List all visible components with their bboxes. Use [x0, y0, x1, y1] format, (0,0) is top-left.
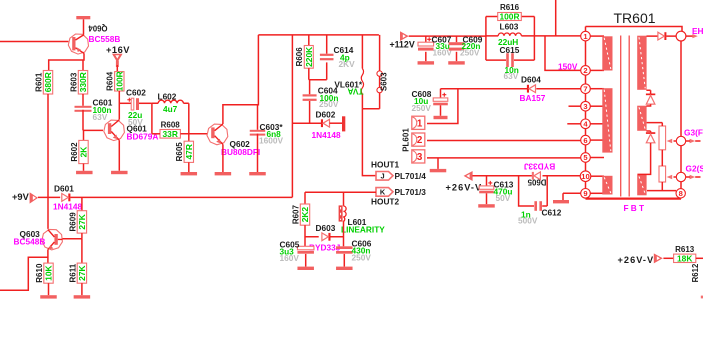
svg-text:3: 3 [583, 102, 587, 111]
svg-text:J: J [380, 172, 384, 181]
wire HOUT1 drop [362, 109, 376, 176]
svg-text:R610: R610 [35, 263, 44, 283]
wire node B to C604 [309, 80, 311, 95]
wire VL601 bottom [361, 94, 363, 109]
svg-text:R601: R601 [34, 72, 43, 92]
wire G3 link [674, 140, 677, 142]
wire L602-R608 right link [188, 103, 190, 134]
wire divider top [647, 123, 663, 126]
power arrow +26V-V left [464, 171, 473, 181]
winding secondary [637, 36, 646, 90]
wire Q604 collector [49, 53, 84, 70]
svg-text:PL701/4: PL701/4 [395, 171, 427, 181]
wire tap [590, 192, 604, 194]
wire R611 top [81, 239, 83, 263]
pin 4 [581, 119, 591, 129]
wire C609 top [456, 36, 458, 42]
wire R613 out [696, 257, 703, 259]
ground [553, 200, 569, 203]
svg-text:L603: L603 [500, 22, 519, 32]
svg-text:27K: 27K [77, 214, 87, 229]
wire to pin2 150V [545, 36, 581, 71]
wire top node rail [258, 34, 379, 36]
capacitor C608 [433, 93, 448, 106]
svg-text:TR601: TR601 [614, 10, 656, 26]
wire R607 top [304, 192, 306, 204]
svg-text:D601: D601 [54, 184, 74, 194]
svg-text:C612: C612 [542, 208, 562, 218]
diode D605 [532, 172, 541, 180]
connector PL601 pin 2 [412, 133, 425, 146]
wire top exit [555, 0, 557, 36]
wire tap [590, 123, 604, 125]
terminator bar C608 [434, 116, 448, 119]
wire C606 to ground [343, 254, 345, 267]
wire TR601 bottom edge [586, 198, 682, 200]
svg-text:18K: 18K [677, 253, 692, 263]
svg-text:6: 6 [583, 136, 587, 145]
power arrow +9V [30, 192, 38, 203]
wire winding to lower diode [637, 131, 650, 174]
svg-text:R604: R604 [106, 71, 115, 91]
wire G2 link [674, 176, 677, 178]
svg-text:10K: 10K [44, 265, 54, 280]
wire LRC right [533, 17, 535, 61]
wire C604 bottom [309, 101, 311, 123]
wire PL601-2 to pin6 [427, 140, 581, 142]
wire trunk [291, 35, 293, 197]
svg-text:HOUT1: HOUT1 [371, 160, 400, 170]
wire R606 top [308, 36, 310, 46]
capacitor C606 [336, 246, 353, 253]
wire node to R602 [83, 130, 85, 140]
wire C605 to ground [305, 254, 307, 267]
wire gnd tap PL601-3 [437, 158, 439, 169]
resistor R604 [106, 71, 125, 91]
wire LRC top [486, 16, 535, 18]
wire R605 to ground [188, 162, 190, 172]
capacitor C612 [534, 201, 542, 211]
wire arrow to R613 [663, 257, 673, 259]
wire R608 to Q602 base [180, 133, 207, 135]
svg-text:250V: 250V [412, 103, 432, 113]
arrow G2 right [690, 175, 696, 180]
svg-text:BC548B: BC548B [14, 237, 46, 247]
arrow G2 wiper [667, 175, 673, 180]
svg-text:63V: 63V [93, 112, 108, 122]
svg-text:1: 1 [417, 118, 423, 129]
wire node B [309, 79, 327, 81]
wire pin4 stub [567, 123, 580, 125]
wire C614 bottom [326, 62, 328, 79]
ground [478, 204, 495, 207]
wire C607 top [425, 36, 427, 42]
wire R609 bottom [81, 233, 83, 239]
arrow G3 right [690, 139, 696, 144]
wire LRC bottom [486, 59, 535, 61]
resistor [659, 126, 666, 150]
power arrow +16V [112, 54, 123, 67]
wire LRC left [485, 17, 487, 61]
svg-text:HOUT2: HOUT2 [371, 196, 400, 206]
wire +112V rail [409, 35, 486, 37]
wire C608 bottom [440, 105, 442, 116]
wire VL601 top [361, 35, 363, 69]
svg-text:D602: D602 [316, 110, 336, 120]
wire pin9 to ground [563, 193, 581, 200]
wire HOUT2 row [305, 191, 376, 193]
wire tap [590, 88, 604, 90]
wire R606 bottom [308, 68, 310, 80]
wire G3 out [686, 140, 701, 142]
svg-text:47R: 47R [184, 144, 194, 159]
wire Q602 emitter to ground [222, 144, 224, 172]
resistor R609 [68, 211, 87, 233]
svg-text:2KV: 2KV [339, 59, 356, 69]
svg-text:R602: R602 [70, 142, 79, 162]
wire LRC mid [486, 35, 581, 37]
svg-text:10: 10 [581, 172, 589, 181]
wire +16V to R604 [116, 65, 118, 72]
svg-text:R611: R611 [68, 263, 77, 282]
terminal G3 [676, 136, 685, 145]
wire L601 top [343, 192, 345, 206]
svg-text:D604: D604 [521, 75, 541, 85]
ground [40, 295, 57, 298]
wire D602 to bar [330, 122, 343, 124]
svg-text:C615: C615 [500, 45, 520, 55]
spark gap VL601 [361, 69, 363, 95]
wire divider bottom [647, 182, 676, 191]
resistor R602 [70, 140, 89, 163]
svg-text:63V: 63V [504, 71, 519, 81]
diode D604 [527, 85, 536, 93]
ground [297, 267, 314, 270]
svg-text:100R: 100R [499, 12, 519, 22]
svg-text:LINEARITY: LINEARITY [341, 225, 385, 235]
ground [74, 295, 91, 298]
wire to C603 [257, 105, 259, 130]
wire linearity node [305, 236, 344, 238]
wire R611 to ground [81, 283, 83, 295]
svg-text:7: 7 [583, 84, 587, 93]
wire PL601-1 to C608 node [427, 89, 458, 124]
svg-text:G2(S: G2(S [686, 163, 703, 173]
svg-text:S603: S603 [380, 72, 389, 91]
wire G2 out [686, 176, 701, 178]
capacitor C609 [449, 42, 465, 50]
connector PL601 pin 1 [412, 116, 425, 129]
svg-text:R609: R609 [68, 212, 77, 232]
wire C613 top [486, 176, 488, 186]
spark gap S603 top ball [377, 71, 382, 76]
winding primary [602, 88, 612, 152]
wire TR601 left edge [585, 27, 587, 199]
wire 26V row to pin10 [473, 175, 581, 177]
power arrow +112V [400, 31, 409, 41]
svg-text:1N4148: 1N4148 [312, 130, 341, 140]
svg-text:+112V: +112V [390, 40, 415, 50]
svg-text:R605: R605 [175, 142, 184, 162]
connector K PL701/3 [376, 188, 393, 197]
wire divider mid [661, 150, 663, 166]
svg-text:330R: 330R [78, 72, 88, 92]
capacitor C613 [479, 181, 494, 193]
svg-text:1N4148: 1N4148 [53, 201, 82, 211]
wire EHT out [686, 35, 693, 37]
wire tap [590, 105, 604, 107]
resistor R601 [34, 71, 53, 95]
svg-text:250V: 250V [319, 99, 339, 109]
svg-text:G3(F: G3(F [684, 127, 703, 137]
resistor R605 [175, 141, 194, 162]
diode FBT lower [646, 132, 655, 143]
wire Q601 emitter to ground [118, 140, 120, 171]
svg-text:160V: 160V [280, 253, 300, 263]
ground [181, 172, 198, 175]
resistor R616 [498, 3, 522, 22]
svg-text:3: 3 [417, 152, 423, 163]
resistor R606 [295, 46, 314, 69]
transistor Q603 [42, 229, 63, 250]
wire R601 bottom to Q603 collector [47, 94, 49, 229]
svg-text:+16V: +16V [106, 45, 130, 55]
wire Q603 emitter [47, 250, 49, 264]
winding secondary [637, 106, 646, 131]
wire R607 to C605 [304, 225, 306, 246]
svg-text:150V: 150V [558, 61, 578, 71]
svg-text:R607: R607 [291, 204, 300, 224]
arrow EHT [692, 34, 697, 38]
svg-text:250V: 250V [460, 48, 480, 58]
transistor Q602 [207, 124, 228, 145]
wire tap [590, 35, 604, 37]
ground [215, 172, 232, 175]
svg-text:BU808DFI: BU808DFI [221, 147, 260, 157]
svg-text:PL601: PL601 [402, 128, 411, 152]
resistor R613 [674, 245, 696, 264]
resistor [659, 166, 666, 182]
inductor L603 [498, 33, 521, 36]
wire node to L602 [152, 102, 189, 104]
wire Q602 collector up [223, 35, 259, 124]
svg-text:50V: 50V [496, 193, 511, 203]
svg-text:BA157: BA157 [520, 93, 546, 103]
connector PL601 pin 3 [412, 150, 425, 163]
svg-text:50V: 50V [128, 117, 143, 127]
pin 1 [581, 31, 591, 41]
wire base Q601 [83, 129, 103, 131]
wire node to C602 [119, 102, 131, 104]
wire pin3 stub [569, 105, 581, 107]
svg-text:+9V: +9V [12, 192, 30, 202]
wire C608 top [440, 89, 442, 98]
svg-text:100R: 100R [114, 71, 124, 91]
wire spark bottom link [362, 108, 379, 110]
svg-text:L602: L602 [158, 92, 177, 102]
pin 6 [581, 135, 591, 145]
transistor Q604 [68, 34, 88, 54]
svg-text:2K: 2K [79, 147, 89, 158]
connector J PL701/4 [376, 172, 393, 181]
svg-text:R612: R612 [691, 263, 700, 282]
inductor L602 [158, 100, 183, 103]
wire L601 to C606 [343, 221, 345, 246]
svg-text:C602: C602 [126, 88, 146, 98]
wire TR601 right rail [680, 41, 682, 199]
diode D603 [322, 233, 331, 241]
capacitor C602 [127, 98, 139, 110]
svg-text:R603: R603 [69, 72, 78, 92]
svg-text:680R: 680R [43, 72, 53, 92]
wire R603 to C601 [82, 94, 84, 106]
capacitor C614 [320, 54, 334, 61]
ground [418, 61, 435, 64]
resistor R603 [69, 71, 88, 95]
svg-text:8: 8 [679, 189, 683, 198]
svg-text:250V: 250V [352, 252, 372, 262]
pin 5 [581, 153, 591, 163]
svg-text:FBT: FBT [624, 203, 647, 213]
svg-text:1600V: 1600V [259, 135, 283, 145]
svg-text:500V: 500V [518, 216, 538, 226]
diode FBT upper [646, 94, 655, 105]
transistor Q601 [104, 120, 125, 141]
arrow G3 wiper [667, 139, 673, 144]
wire Q603 base [63, 238, 82, 240]
svg-text:2: 2 [583, 66, 587, 75]
wire TR601 top edge [586, 27, 683, 32]
ground [76, 171, 93, 174]
wire tap [590, 157, 604, 159]
wire node to R605 [188, 134, 190, 141]
ground [448, 61, 465, 64]
wire Q604 emitter to rail [83, 19, 85, 34]
inductor L601 [339, 205, 347, 221]
wire winding to EHT diode [647, 35, 677, 37]
wire +9V to D601 [38, 196, 60, 198]
svg-text:D603: D603 [316, 223, 336, 233]
wire D601 to trunk [70, 196, 292, 198]
resistor R608 [160, 120, 180, 139]
svg-text:2K2: 2K2 [300, 207, 310, 223]
wire R602 to ground [83, 164, 85, 171]
wire pin7 row [441, 88, 581, 90]
terminator bar [342, 116, 345, 131]
wire R609 top [81, 197, 83, 210]
power rail bar [76, 16, 90, 19]
terminal G2 [676, 172, 685, 181]
pin 9 [581, 189, 591, 199]
wire winding to upper diode [646, 90, 650, 106]
ground [430, 169, 447, 172]
resistor R610 [35, 263, 54, 283]
wire feedback from left edge [0, 257, 48, 290]
capacitor C615 [506, 53, 514, 67]
wire C603 to ground [257, 134, 259, 172]
diode D601 [62, 194, 71, 202]
wire trunk to D602 [292, 122, 321, 124]
wire L602-R608 left link [151, 103, 153, 134]
ground [249, 172, 266, 175]
wire Q604 base from left edge [0, 41, 68, 43]
wire tap [590, 139, 604, 141]
svg-text:PL701/3: PL701/3 [395, 187, 427, 197]
wire C614 top [326, 36, 328, 54]
wire R608 left [152, 133, 160, 135]
wire C602 to node [139, 102, 152, 104]
winding primary [602, 176, 612, 195]
pin 3 [581, 101, 591, 111]
svg-text:+26V-V: +26V-V [618, 255, 655, 265]
resistor R612 partial [701, 296, 703, 299]
capacitor C604 [303, 94, 317, 101]
resistor R607 [291, 204, 310, 225]
wire PL601-3 to pin5 [427, 157, 581, 159]
svg-text:33R: 33R [163, 129, 178, 139]
svg-text:BYD33J: BYD33J [523, 162, 555, 172]
wire C612 branch [519, 176, 548, 206]
ground [336, 267, 353, 270]
wire C609 to ground [456, 52, 458, 61]
svg-text:27K: 27K [77, 265, 87, 280]
wire C613 to ground [486, 193, 488, 204]
capacitor C603 [250, 130, 266, 136]
wire R610 to ground [48, 283, 50, 295]
capacitor C605 [297, 246, 314, 253]
svg-text:4u7: 4u7 [163, 104, 178, 114]
pin 8 [676, 189, 685, 198]
svg-text:Q604: Q604 [88, 24, 108, 33]
terminal EHT [676, 31, 686, 41]
wire S603 line [379, 35, 381, 109]
diode EHT [658, 32, 667, 40]
core [621, 36, 630, 197]
svg-text:R606: R606 [295, 47, 304, 67]
wire tap [590, 175, 604, 177]
svg-text:TVA: TVA [348, 87, 364, 97]
svg-text:EHT: EHT [692, 26, 703, 36]
spark gap S603 bottom ball [377, 87, 382, 92]
capacitor C601 100n [75, 106, 92, 112]
wire tap [590, 69, 604, 71]
diode D602 [321, 119, 330, 127]
wire C601 to node [82, 110, 84, 131]
wire C607 to ground [425, 52, 427, 61]
svg-text:D605: D605 [527, 178, 546, 187]
capacitor C607 [418, 37, 434, 50]
svg-text:220K: 220K [304, 47, 314, 67]
winding primary [602, 36, 612, 70]
svg-text:9: 9 [583, 189, 587, 198]
pin 7 [581, 84, 591, 94]
svg-text:BC558B: BC558B [89, 34, 121, 44]
power arrow +26V-V right [654, 253, 663, 263]
ground [111, 171, 128, 174]
pin 10 [580, 171, 591, 182]
svg-text:2: 2 [417, 135, 423, 146]
pin 2 [581, 66, 591, 76]
wire R604 to Q601 collector [118, 91, 120, 120]
svg-text:+26V-V: +26V-V [446, 183, 483, 193]
resistor R611 [68, 263, 87, 283]
winding secondary [637, 175, 646, 195]
